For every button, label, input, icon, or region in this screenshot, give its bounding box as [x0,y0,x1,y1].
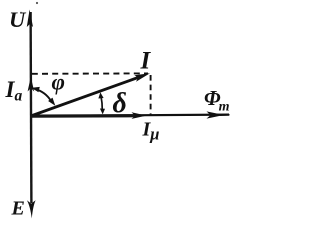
dashed horizontal projection line [32,72,148,74]
Phi_m axis arrowhead (right) [207,111,225,118]
dashed vertical projection line [150,75,152,115]
E axis arrowhead (down) [27,200,36,218]
svg-text:Iμ: Iμ [142,119,160,144]
vector I arrowhead [134,73,150,82]
svg-text:I: I [140,48,152,75]
vertical axis U-E line [29,12,32,203]
I_mu vector overlap segment [31,114,138,118]
delta angle arc [101,96,102,111]
U axis arrowhead (up) [27,10,33,28]
I_a arrowhead on vertical axis [28,77,35,92]
svg-text:U: U [9,7,27,32]
phi arc arrowhead upper [32,87,40,92]
svg-text:δ: δ [113,88,127,119]
delta arc arrowhead upper [98,92,103,98]
svg-text:Ia: Ia [5,77,23,105]
vector I line [31,78,138,117]
phi angle arc [35,89,52,101]
speck near top [36,2,38,4]
speck left of U arrow [20,12,22,14]
horizontal axis Phi_m line [31,115,229,116]
svg-text:φ: φ [52,70,65,95]
svg-text:E: E [11,198,25,220]
I_mu arrowhead on horizontal axis [132,112,147,119]
delta arc arrowhead lower [100,109,105,115]
svg-text:Φm: Φm [204,86,230,115]
phi arc arrowhead lower [48,98,55,106]
